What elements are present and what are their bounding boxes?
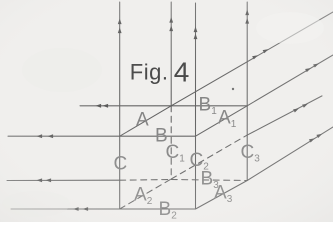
wire: diagonal ray line a through BTL [171, 12, 333, 106]
arrowheads line c2 [194, 27, 198, 33]
wire: diagonal ray line a3 through BBR [247, 127, 333, 181]
wire: vertical ray line c through C [119, 2, 121, 136]
ink speck [232, 88, 234, 90]
arrowheads line a [252, 55, 258, 59]
arrowheads line c3 [245, 10, 249, 16]
wire: box edge FTL-FBL (front left vertical) [119, 136, 121, 209]
wire: vertical ray line c3 through C3 [246, 2, 248, 106]
wire: box edge FTL-BTL (top left depth) [120, 106, 172, 136]
wire: horizontal ray line b3 through B3 solid part [7, 179, 120, 181]
wire: box edge FBL-FBR (front bottom) [120, 208, 196, 210]
wire: hidden edge BBL-BBR dashed [171, 180, 247, 181]
arrowheads line b3 [37, 178, 43, 182]
wire: box edge BTL-BTR (back top) [171, 105, 247, 107]
wire: box edge FBR-BBR (bottom right depth) [196, 181, 248, 210]
wire: diagonal ray line a1 through BTR [247, 55, 333, 106]
wire: diagonal ray line a2 solid part [247, 96, 322, 135]
wire: line a2 hidden part inside box dashed [171, 135, 247, 179]
arrowheads line a3 [309, 138, 315, 142]
arrowheads line c1 [169, 17, 173, 23]
arrowheads line b2 [73, 207, 79, 211]
wire: box edge BTR-BBR (back right vertical) [246, 106, 248, 181]
wire: horizontal ray line b1 through B1 [80, 105, 171, 107]
wire: horizontal ray line b through B [8, 135, 120, 137]
arrowheads line b [37, 134, 43, 138]
wire: line b3 hidden part behind front face dashed [120, 179, 172, 182]
wire: hidden edge FBL-BBL dashed (line a2) [120, 179, 172, 209]
wire: horizontal ray line b2 through B2 [11, 208, 120, 210]
arrowheads line b1 [96, 104, 102, 108]
wire: vertical ray line c2 through C2 [195, 3, 197, 136]
wire: box edge FTR-BTR (top right depth) [196, 106, 248, 136]
wire: box edge FTR-FBR (front right vertical) [195, 136, 197, 209]
wire: box edge FTL-FTR (front top) [120, 135, 196, 137]
wire: hidden edge BTL-BBL dashed [170, 106, 172, 179]
arrowheads line c [118, 19, 122, 25]
arrowheads line a2 [293, 108, 299, 112]
wire: vertical ray line c1 through C1 [170, 2, 172, 106]
arrowheads line a1 [305, 68, 311, 72]
